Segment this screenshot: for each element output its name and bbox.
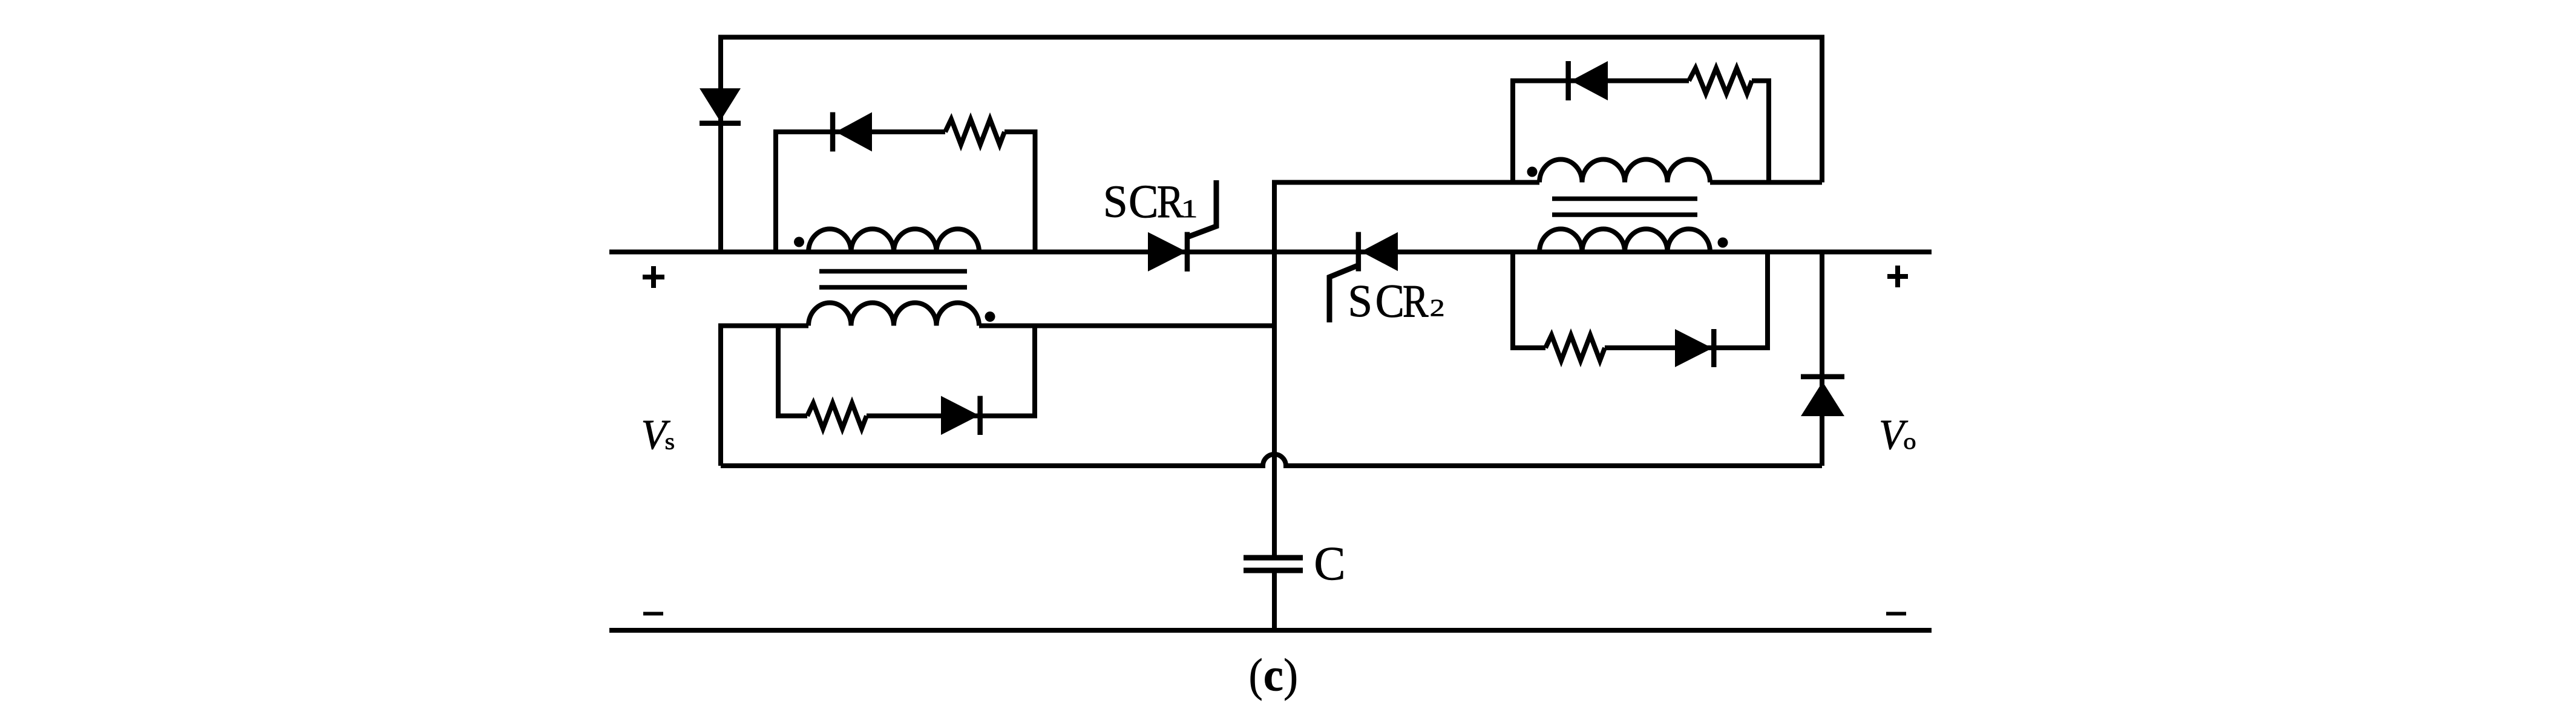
resistor left upper snubber [945, 119, 1005, 145]
gate wire SCR2 [1329, 265, 1359, 322]
diode right upper snubber pointing left [1571, 61, 1608, 100]
inductor right transformer lower winding [1539, 229, 1710, 252]
plus sign right [1887, 266, 1908, 287]
label glyph Vs_V [643, 421, 670, 449]
wire capacitor to bottom rail [1272, 573, 1277, 630]
label glyph Vo_V [1881, 421, 1909, 449]
label glyph c_rp [1285, 658, 1296, 700]
wire top link with end verticals [721, 38, 1822, 252]
wire right diode branch [1820, 252, 1824, 466]
thyristor SCR2 pointing left [1361, 232, 1398, 271]
label glyph SCR1_1 [1184, 200, 1196, 217]
core left transformer [819, 269, 967, 274]
wire bottom mid rail with hop over vertical [721, 454, 1822, 466]
wire center vertical to capacitor [1274, 183, 1539, 556]
resistor left lower snubber [807, 403, 867, 429]
label glyph SCR1_C [1130, 186, 1156, 218]
resistor right lower snubber [1545, 335, 1605, 361]
label glyph SCR2_2 [1431, 300, 1443, 316]
wire right lower snubber loop [1513, 252, 1768, 348]
inductor left transformer upper winding [808, 229, 979, 252]
label glyph Vo_o [1904, 438, 1915, 449]
gate wire SCR1 [1187, 180, 1216, 237]
diode left upper snubber pointing left [836, 113, 872, 152]
diode D1 top-left pointing down [700, 88, 741, 122]
wire left lower winding right segment [979, 324, 1274, 328]
label glyph Vs_s [666, 438, 673, 449]
label glyph SCR1_R [1158, 186, 1184, 217]
diode right lower snubber pointing right [1675, 329, 1712, 367]
label glyph C_C [1316, 548, 1343, 580]
diode left lower snubber pointing right [941, 396, 979, 436]
label glyph SCR1_S [1106, 186, 1125, 217]
wire left upper snubber loop [776, 132, 1035, 252]
capacitor C plates [1244, 555, 1303, 561]
label glyph SCR2_C [1377, 286, 1402, 318]
minus sign left [643, 612, 663, 616]
diode right branch pointing up [1801, 382, 1844, 416]
wire right upper winding right segment [1710, 180, 1822, 185]
inductor left transformer lower winding [808, 303, 979, 326]
plus sign left [643, 266, 664, 288]
label glyph c_c [1265, 668, 1282, 691]
thyristor SCR1 pointing right [1148, 232, 1187, 272]
label glyph SCR2_S [1351, 286, 1369, 317]
dot left transformer upper [794, 237, 804, 247]
core right transformer [1552, 197, 1697, 201]
wire right upper snubber loop [1513, 81, 1769, 183]
dot right transformer lower [1718, 238, 1728, 248]
label glyph c_lp [1251, 658, 1262, 700]
wire left lower snubber loop [778, 326, 1035, 416]
resistor right upper snubber [1689, 68, 1752, 94]
wire bottom negative rail [609, 628, 1932, 633]
inductor right transformer upper winding [1539, 160, 1710, 183]
wire left lower winding left leg [721, 326, 808, 466]
label glyph SCR2_R [1404, 286, 1429, 317]
dot right transformer upper [1527, 167, 1538, 177]
dot left transformer lower [985, 312, 995, 322]
wire main positive rail [609, 250, 1932, 255]
minus sign right [1886, 612, 1906, 616]
